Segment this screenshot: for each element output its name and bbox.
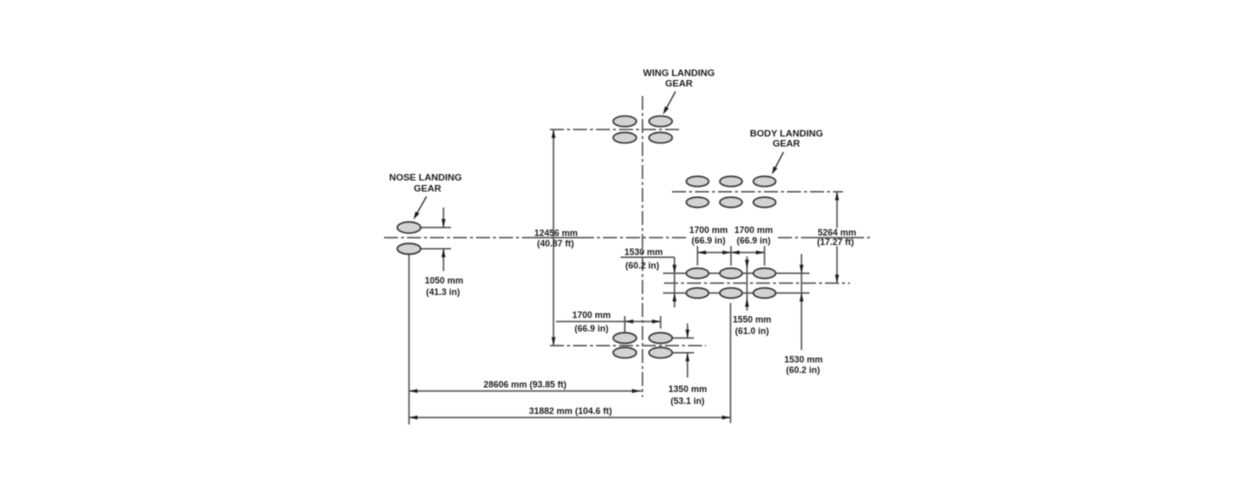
- svg-text:1550 mm: 1550 mm: [733, 315, 772, 325]
- svg-text:(66.9 in): (66.9 in): [691, 235, 725, 245]
- svg-text:(40.87 ft): (40.87 ft): [537, 239, 574, 249]
- svg-text:1350 mm: 1350 mm: [668, 384, 707, 394]
- svg-text:(41.3 in): (41.3 in): [426, 287, 460, 297]
- svg-text:1700 mm: 1700 mm: [689, 225, 728, 235]
- svg-text:WING LANDING: WING LANDING: [643, 68, 715, 79]
- svg-text:(66.9 in): (66.9 in): [574, 324, 608, 334]
- svg-text:31882 mm (104.6 ft): 31882 mm (104.6 ft): [529, 406, 612, 416]
- svg-text:GEAR: GEAR: [414, 183, 442, 194]
- svg-text:28606 mm (93.85 ft): 28606 mm (93.85 ft): [483, 380, 566, 390]
- svg-text:(61.0 in): (61.0 in): [735, 326, 769, 336]
- svg-text:(17.27 ft): (17.27 ft): [817, 237, 854, 247]
- svg-text:5264 mm: 5264 mm: [818, 227, 857, 237]
- svg-text:1700 mm: 1700 mm: [572, 310, 611, 320]
- svg-text:GEAR: GEAR: [773, 138, 801, 149]
- svg-text:(60.2 in): (60.2 in): [786, 365, 820, 375]
- svg-text:1700 mm: 1700 mm: [734, 225, 773, 235]
- svg-text:1530 mm: 1530 mm: [784, 355, 823, 365]
- svg-text:GEAR: GEAR: [665, 79, 693, 90]
- svg-text:(66.9 in): (66.9 in): [737, 235, 771, 245]
- svg-text:(60.2 in): (60.2 in): [625, 261, 659, 271]
- svg-text:1050 mm: 1050 mm: [425, 275, 464, 285]
- svg-text:1530 mm: 1530 mm: [624, 247, 663, 257]
- svg-text:12456 mm: 12456 mm: [534, 228, 578, 238]
- svg-text:(53.1 in): (53.1 in): [670, 396, 704, 406]
- svg-text:NOSE LANDING: NOSE LANDING: [389, 173, 462, 184]
